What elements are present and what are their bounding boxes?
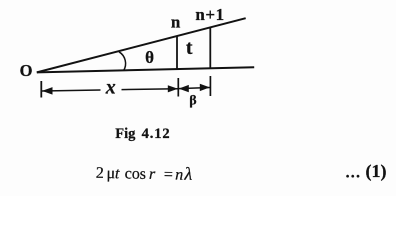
svg-text:2μtcosr=nλ: 2μtcosr=nλ bbox=[96, 162, 193, 184]
svg-text:O: O bbox=[20, 61, 33, 80]
svg-text:x: x bbox=[105, 77, 116, 99]
svg-text:Fig: Fig bbox=[115, 126, 136, 142]
svg-text:t: t bbox=[186, 37, 193, 59]
svg-text:n: n bbox=[171, 13, 181, 32]
svg-text:β: β bbox=[189, 94, 196, 109]
svg-text:n+1: n+1 bbox=[195, 5, 224, 24]
svg-text:...: ... bbox=[346, 165, 362, 182]
svg-text:θ: θ bbox=[145, 48, 154, 67]
svg-text:4.12: 4.12 bbox=[142, 126, 171, 142]
svg-text:(1): (1) bbox=[366, 161, 387, 182]
